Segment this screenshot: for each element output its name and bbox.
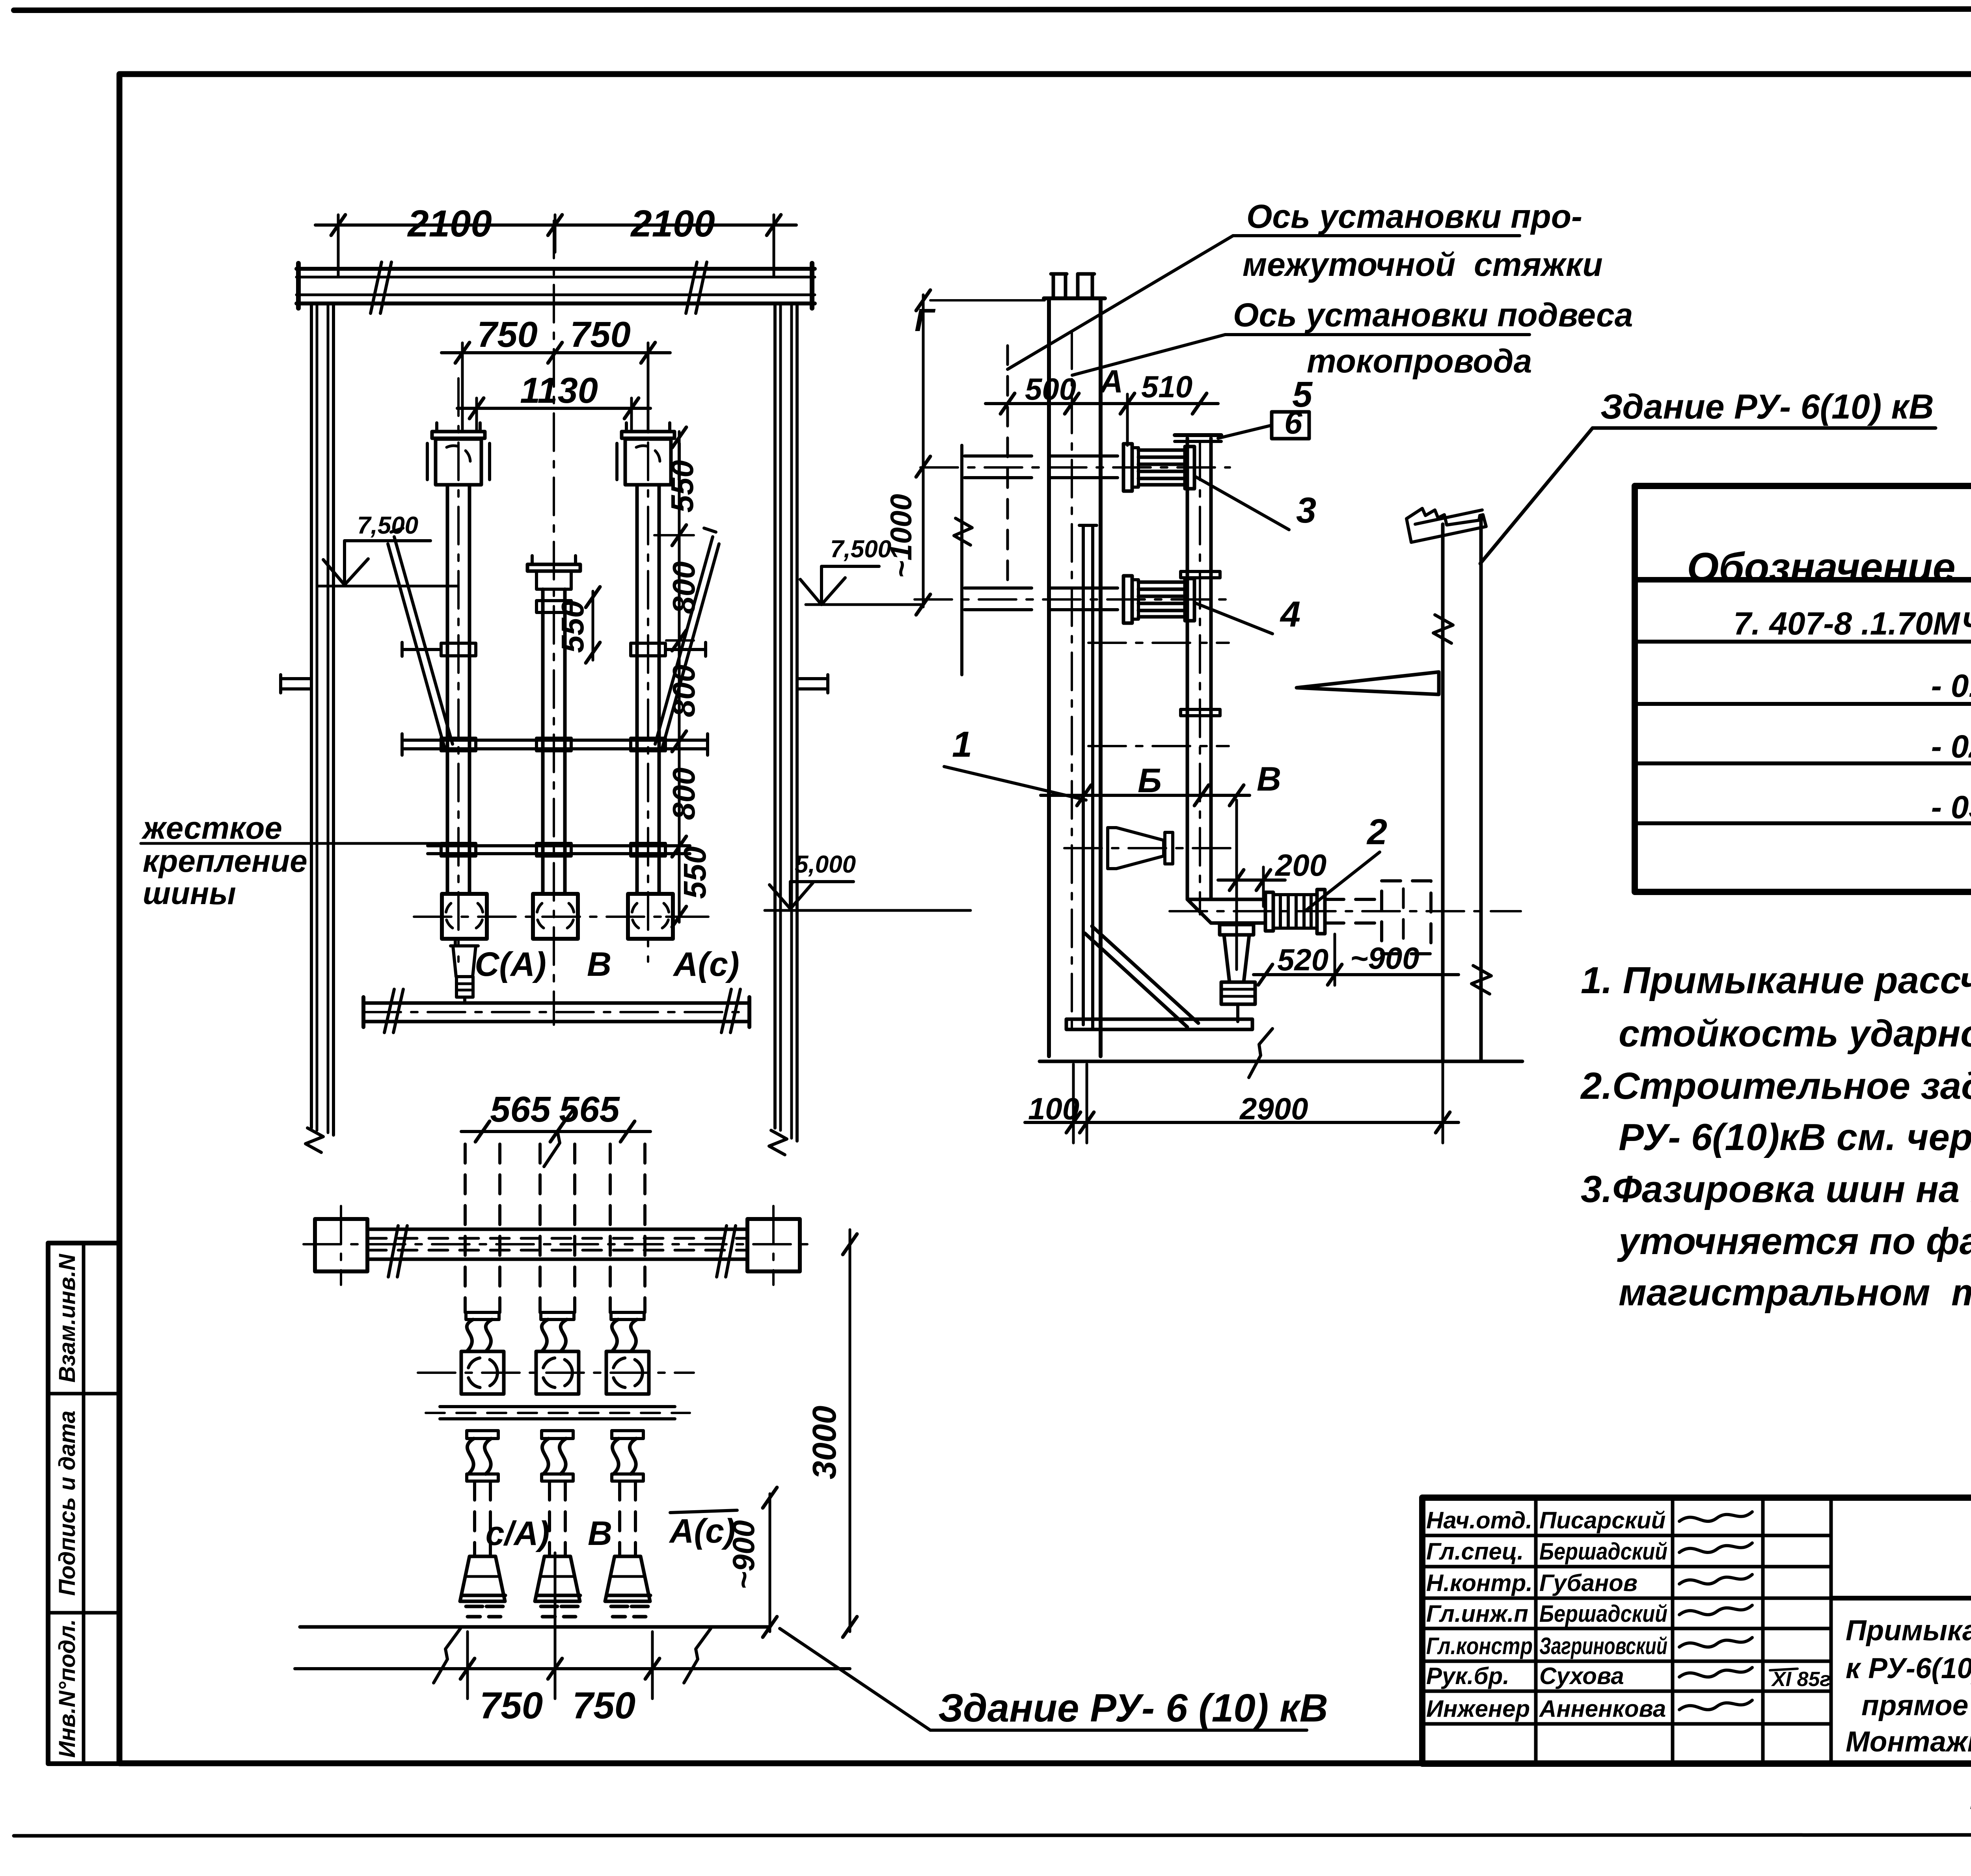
V1 tie bar row 1: [402, 739, 708, 742]
V3 main beam: [367, 1228, 747, 1231]
svg-text:750: 750: [570, 315, 631, 355]
svg-text:- 02: - 02: [1931, 729, 1971, 765]
svg-text:550: 550: [555, 600, 590, 653]
svg-text:уточняется по фазировке шин, п: уточняется по фазировке шин, принятой на: [1617, 1220, 1971, 1262]
table outer border: [1635, 486, 1971, 892]
svg-text:к РУ-6(10)кВ ( iу≤ 210кА): к РУ-6(10)кВ ( iу≤ 210кА): [1846, 1653, 1971, 1688]
V3 vertical center dashes at squares: [340, 1206, 342, 1285]
V1 dim 2100+2100: [315, 223, 796, 227]
svg-text:Бершадский: Бершадский: [1539, 1538, 1667, 1565]
V2 bushing 1 (item 3): [1123, 444, 1132, 491]
V1 beam right end plate: [810, 263, 814, 308]
table header bottom line: [1635, 577, 1971, 583]
V1 dim 550 near center phase: [592, 591, 594, 660]
V1 leg stub left: [281, 677, 311, 680]
V3 riser break mark: [544, 1110, 573, 1167]
V1 left pin row: [402, 648, 441, 651]
svg-text:Примыкание токопровода: Примыкание токопровода: [1846, 1615, 1971, 1647]
V1 phase center dash-dot lines: [457, 378, 460, 962]
svg-text:магистральном токопроводе.: магистральном токопроводе.: [1619, 1271, 1971, 1314]
V2 bottom bracket bar: [1066, 1019, 1252, 1029]
svg-text:550: 550: [665, 460, 700, 512]
V2 suspension hooks: [1053, 274, 1066, 298]
svg-text:Ось установки про-: Ось установки про-: [1246, 198, 1582, 235]
paper top edge line: [14, 9, 1971, 10]
V1 brace left: [394, 537, 453, 744]
V2 hanging insulator: [1220, 925, 1254, 935]
svg-text:1. Примыкание рассчитано на д: 1. Примыкание рассчитано на динамическую: [1581, 959, 1971, 1001]
V1 chain extension lines: [654, 534, 694, 536]
svg-text:565: 565: [559, 1089, 620, 1130]
svg-text:500: 500: [1025, 372, 1076, 406]
V1 portal leg right break: [769, 1130, 787, 1155]
V1 phase column at x=1405: [527, 564, 580, 571]
svg-text:Бершадский: Бершадский: [1539, 1601, 1667, 1627]
V1 top beam: [296, 267, 815, 271]
svg-text:А: А: [1099, 364, 1123, 400]
svg-text:800: 800: [666, 767, 701, 820]
svg-text:5,000: 5,000: [795, 851, 856, 878]
V3 bottom dim line 750 750: [295, 1667, 850, 1670]
svg-text:4: 4: [1280, 594, 1300, 635]
V2 intermediate dash-dot bus positions: [1088, 642, 1229, 644]
V1 dim 1130: [457, 407, 650, 410]
svg-text:Нач.отд.: Нач.отд.: [1426, 1507, 1532, 1534]
leader to building: [1480, 428, 1593, 564]
V1 brace right: [655, 537, 713, 744]
svg-text:Монтажный чертеж.: Монтажный чертеж.: [1846, 1726, 1971, 1758]
V3 phase dashed risers: [464, 1144, 467, 1312]
svg-text:жесткое: жесткое: [141, 810, 282, 845]
V1 insulator below left box: [451, 939, 478, 977]
svg-text:Гл.инж.п: Гл.инж.п: [1426, 1601, 1528, 1627]
svg-text:2100: 2100: [407, 203, 492, 245]
svg-text:200: 200: [1274, 848, 1326, 882]
svg-text:В: В: [1257, 760, 1281, 798]
V3 dim ~900: [769, 1494, 771, 1632]
svg-text:B: B: [587, 945, 611, 983]
svg-text:Анненкова: Анненкова: [1539, 1695, 1666, 1722]
svg-text:Загриновский: Загриновский: [1539, 1633, 1667, 1659]
svg-text:Здание РУ- 6 (10) кВ: Здание РУ- 6 (10) кВ: [938, 1686, 1328, 1730]
doc number cell line: [1831, 1596, 1971, 1601]
V1 beam left end plate: [296, 263, 301, 308]
svg-text:2900: 2900: [1239, 1091, 1308, 1126]
V2 top bracket plate: [1175, 433, 1221, 437]
svg-text:2100: 2100: [630, 203, 715, 245]
svg-text:крепление: крепление: [143, 843, 307, 878]
svg-text:токопровода: токопровода: [1307, 342, 1532, 380]
V2 bracket diagonal: [1092, 926, 1198, 1023]
svg-text:800: 800: [666, 561, 701, 614]
svg-text:Рук.бр.: Рук.бр.: [1426, 1663, 1509, 1689]
svg-text:~900: ~900: [726, 1520, 761, 1589]
svg-text:РУ- 6(10)кВ см. черт. 7: РУ- 6(10)кВ см. черт. 7.407-8 .0.360: [1619, 1116, 1971, 1158]
svg-text:750: 750: [572, 1684, 635, 1727]
V3 floor line: [300, 1625, 770, 1629]
svg-text:6: 6: [1284, 405, 1303, 441]
svg-text:Ось установки подвеса: Ось установки подвеса: [1233, 296, 1633, 333]
svg-text:стойкость ударному току 3xфазн: стойкость ударному току 3xфазного к.з. i…: [1619, 1012, 1971, 1062]
V2 ground line: [1040, 1060, 1522, 1063]
V1 phase collars and clamps: [441, 643, 476, 656]
table row lines: [1635, 640, 1971, 644]
svg-text:Взам.инв.N: Взам.инв.N: [54, 1254, 80, 1383]
svg-text:Инв.N°подл.: Инв.N°подл.: [54, 1619, 80, 1758]
V2 channel center dash-dot: [1199, 443, 1201, 914]
V3 tie bar row: [440, 1405, 675, 1408]
V1 phase column at x=1644: [622, 432, 674, 438]
svg-text:B: B: [588, 1515, 612, 1552]
signature table rows: [1422, 1534, 1831, 1537]
V3 phase assembly at x=1592: [611, 1312, 644, 1320]
V2 dim ~1000: [916, 594, 930, 615]
V2 wall bushing horn at level B: [1108, 828, 1164, 869]
V1 right dim chain: [678, 432, 681, 922]
V1 dim 750+750: [442, 351, 670, 354]
svg-text:Губанов: Губанов: [1539, 1570, 1638, 1596]
V3 phase assembly at x=1224: [466, 1312, 499, 1320]
svg-text:565: 565: [490, 1089, 551, 1130]
svg-text:1: 1: [952, 724, 972, 765]
svg-text:3.Фазировка шин на вводе в зда: 3.Фазировка шин на вводе в здание РУ-6(1…: [1581, 1168, 1971, 1210]
left stamp column box: [48, 1243, 119, 1764]
V3 beam center dash-dot: [304, 1243, 812, 1245]
svg-text:Писарский: Писарский: [1539, 1507, 1665, 1534]
svg-text:550: 550: [677, 846, 712, 899]
svg-text:Инженер: Инженер: [1426, 1695, 1530, 1722]
V2 bus bars to bushing2: [965, 586, 1123, 590]
V1 bottom beam break flags: [384, 989, 403, 1033]
title block outer: [1422, 1498, 1971, 1764]
V1 bottom beam: [363, 1001, 749, 1005]
V3 beam break flags: [388, 1226, 407, 1277]
svg-text:520: 520: [1277, 942, 1328, 977]
svg-text:A(c): A(c): [669, 1512, 735, 1550]
svg-text:800: 800: [666, 664, 701, 717]
svg-text:Здание РУ- 6(10) кВ: Здание РУ- 6(10) кВ: [1600, 387, 1934, 426]
svg-text:7,500: 7,500: [357, 512, 418, 539]
paper bottom edge line: [14, 1835, 1971, 1836]
V2 column cap: [1044, 296, 1105, 300]
V3 beam left end square: [315, 1219, 367, 1271]
V2 wall channel (bus duct vertical): [1186, 438, 1189, 899]
V1 leader from label: [141, 842, 442, 845]
V3 dim 3000: [849, 1230, 851, 1632]
svg-text:Сухова: Сухова: [1539, 1663, 1624, 1689]
V1 phase column at x=1163: [432, 432, 485, 438]
V2 main column: [1047, 298, 1051, 1056]
V1 tie bar row 2: [428, 844, 690, 847]
svg-text:межуточной стяжки: межуточной стяжки: [1243, 246, 1603, 283]
svg-text:3: 3: [1296, 490, 1316, 530]
svg-text:510: 510: [1141, 369, 1192, 404]
V1 insulator stem to beam: [463, 997, 466, 1003]
V1 portal leg left: [310, 303, 313, 1128]
svg-text:A(c): A(c): [673, 945, 739, 983]
V3 beam right end square: [747, 1219, 800, 1271]
V2 roof slab wedge: [1297, 672, 1439, 694]
V2 bushing 2 (item 4): [1123, 576, 1132, 623]
V2 wall break marks: [1433, 615, 1453, 643]
svg-text:Обозначение: Обозначение: [1687, 545, 1955, 590]
V3 phase assembly at x=1414: [541, 1312, 574, 1320]
V1 boxes horizontal center dash line: [414, 916, 710, 918]
V2 dashed bus into building: [1325, 898, 1382, 901]
svg-text:шины: шины: [143, 876, 236, 911]
V3 box row center dash-dot: [418, 1372, 694, 1374]
V2 L-bend of bus duct: [1187, 899, 1211, 923]
svg-text:C(A): C(A): [475, 945, 546, 983]
svg-text:1130: 1130: [520, 370, 598, 411]
svg-text:2.Строительное задание на прим: 2.Строительное задание на примыкание к: [1580, 1065, 1971, 1107]
V2 stoika (item 1 post): [1082, 525, 1085, 1025]
svg-text:- 03: - 03: [1931, 789, 1971, 825]
V2 left bus extension break line: [960, 445, 963, 675]
svg-text:100: 100: [1028, 1091, 1079, 1126]
V2 building wall lines: [1441, 524, 1445, 1060]
svg-text:3000: 3000: [806, 1406, 843, 1480]
svg-text:750: 750: [477, 315, 538, 355]
signature squiggles: [1679, 1512, 1752, 1521]
V2 wall sleeve dashed: [1382, 881, 1431, 954]
svg-text:2: 2: [1366, 812, 1387, 852]
svg-text:~900: ~900: [1350, 941, 1420, 975]
V2 small flange pads on channel: [1181, 571, 1220, 578]
svg-text:7,500: 7,500: [830, 536, 891, 563]
V1 bottom squares (wall fixing boxes): [442, 894, 487, 939]
svg-text:Гл.констр: Гл.констр: [1426, 1633, 1533, 1659]
svg-text:Подпись и дата: Подпись и дата: [54, 1411, 80, 1596]
V2 bus bars to bushing1: [965, 454, 1123, 458]
V2 column center dash-dot: [1071, 331, 1073, 1033]
V1 portal leg right: [773, 303, 777, 1128]
V1 leg stub right: [797, 677, 828, 680]
V2 dim G (left): [922, 295, 925, 607]
svg-text:7. 407-8 .1.70МЧ: 7. 407-8 .1.70МЧ: [1733, 606, 1971, 642]
svg-text:c/A): c/A): [486, 1515, 550, 1552]
V2 building parapet: [1407, 508, 1486, 542]
svg-text:750: 750: [480, 1684, 543, 1727]
V2 bushing 2 horizontal (item 2): [1265, 892, 1273, 931]
svg-text:XI 85г: XI 85г: [1771, 1668, 1831, 1691]
svg-text:Н.контр.: Н.контр.: [1426, 1570, 1533, 1596]
V1 portal leg left break: [306, 1128, 323, 1152]
signature table columns: [1534, 1498, 1538, 1764]
V1 beam break marks: [371, 262, 391, 313]
svg-text:- 01: - 01: [1931, 668, 1971, 704]
svg-text:Гл.спец.: Гл.спец.: [1426, 1538, 1524, 1565]
svg-text:прямое со спуском.: прямое со спуском.: [1861, 1690, 1971, 1722]
V1 right pin row: [665, 648, 706, 651]
svg-text:Г: Г: [915, 302, 936, 338]
